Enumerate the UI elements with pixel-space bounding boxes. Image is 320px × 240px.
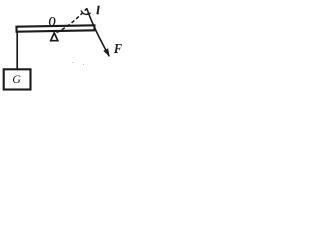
wire (string to weight)	[16, 31, 18, 70]
angle arc at junction	[81, 10, 91, 14]
force F line of action	[87, 8, 110, 56]
lever bar	[16, 25, 94, 31]
svg-text:G: G	[12, 72, 21, 86]
fulcrum pivot triangle	[51, 33, 58, 41]
arrowhead of F	[103, 48, 109, 56]
dashed moment-arm line	[57, 8, 88, 32]
faint speck	[83, 64, 84, 65]
background	[0, 0, 130, 102]
svg-text:F: F	[113, 40, 122, 56]
svg-text:O: O	[49, 13, 57, 29]
faint speck	[72, 62, 73, 63]
weight G box	[4, 69, 31, 89]
